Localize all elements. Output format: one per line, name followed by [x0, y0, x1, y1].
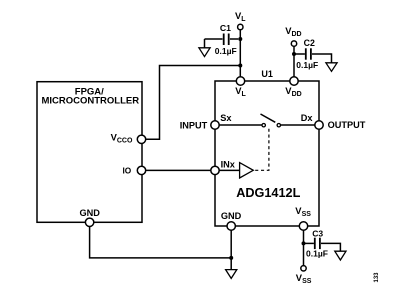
wire: switch to Dx [281, 124, 315, 126]
ground (C3) [335, 251, 346, 260]
pin Dx (U1 right) [315, 121, 323, 129]
pin INx (U1 left) [211, 166, 219, 174]
node junction on V_L rail at C1 [238, 37, 242, 41]
pin V_DD (U1 top) [290, 77, 298, 85]
node junction V_SS at C3 [302, 241, 306, 245]
svg-text:Sx: Sx [220, 113, 232, 123]
svg-text:IO: IO [123, 165, 132, 175]
wire: V_DD vertical rail [293, 46, 295, 77]
svg-text:ADG1412L: ADG1412L [236, 186, 300, 200]
FPGA/MICROCONTROLLER block [37, 82, 142, 223]
capacitor C1 [205, 38, 223, 40]
svg-text:INx: INx [221, 160, 236, 170]
wire: V_L vertical rail [239, 30, 241, 77]
ground (C1) [204, 39, 206, 48]
svg-text:0.1µF: 0.1µF [215, 46, 237, 56]
svg-text:MICROCONTROLLER: MICROCONTROLLER [41, 96, 139, 107]
svg-text:0.1µF: 0.1µF [296, 60, 318, 70]
op-amp/chip box U1 ADG1412L [215, 81, 319, 226]
svg-text:U1: U1 [261, 69, 273, 79]
svg-text:GND: GND [221, 211, 242, 221]
V_L supply terminal [238, 24, 243, 29]
svg-text:GND: GND [79, 208, 100, 218]
pin Sx (U1 left) [211, 121, 219, 129]
V_DD supply terminal [291, 41, 296, 46]
pin V_L (U1 top) [236, 77, 244, 85]
svg-text:VDD: VDD [285, 25, 301, 38]
svg-text:VCCO: VCCO [111, 131, 133, 144]
svg-text:VSS: VSS [295, 205, 311, 218]
svg-text:VL: VL [235, 85, 246, 98]
svg-text:0.1µF: 0.1µF [306, 249, 328, 259]
node junction on V_L rail at riser [238, 64, 242, 68]
switch contact right [277, 124, 280, 127]
ground (main) [226, 270, 237, 279]
pin V_SS (U1 bottom) [299, 222, 307, 230]
dashed control line from switch to driver [255, 129, 269, 171]
svg-text:C3: C3 [312, 229, 323, 239]
pin GND (U1 bottom) [227, 222, 235, 230]
wire: V_CCO to riser to V_L rail [146, 66, 241, 140]
svg-text:OUTPUT: OUTPUT [328, 120, 366, 130]
svg-text:INPUT: INPUT [180, 120, 208, 130]
switch lever [261, 114, 276, 122]
pin IO (FPGA) [137, 166, 145, 174]
wire: IO to INx [146, 169, 211, 171]
svg-text:133: 133 [374, 272, 380, 283]
svg-text:VL: VL [235, 10, 246, 23]
wire: V_SS rail down [303, 230, 305, 265]
capacitor C2 [294, 53, 305, 55]
wire: FPGA GND down and right [90, 227, 232, 258]
ground (C2) [326, 63, 337, 72]
svg-text:VSS: VSS [296, 272, 312, 285]
pin GND (FPGA) [85, 218, 93, 226]
wire: U1 GND down to ground [230, 230, 232, 269]
wire: INx pin to buffer [219, 169, 239, 171]
switch contact left [262, 124, 265, 127]
svg-text:C1: C1 [220, 23, 231, 33]
pin V_CCO (FPGA) [137, 135, 145, 143]
driver buffer triangle INx [240, 163, 254, 178]
wire: Sx to switch [219, 124, 262, 126]
V_SS supply terminal (bottom) [301, 266, 306, 271]
svg-text:Dx: Dx [301, 113, 314, 123]
svg-text:VDD: VDD [285, 85, 301, 98]
svg-text:C2: C2 [304, 38, 315, 48]
node junction on V_DD rail at C2 [292, 52, 296, 56]
node junction GND [229, 256, 233, 260]
capacitor C3 [304, 242, 314, 244]
